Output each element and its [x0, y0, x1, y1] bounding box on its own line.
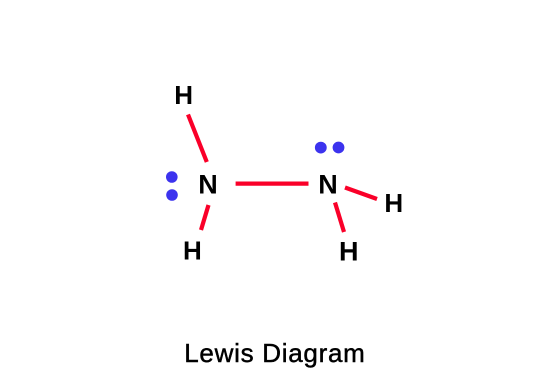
bond H1-N1 [188, 115, 207, 163]
lone pair dot N2 left [315, 142, 327, 154]
svg-text:H: H [174, 80, 193, 110]
bond N2-H2 [345, 188, 377, 200]
svg-text:H: H [384, 188, 403, 218]
bond N1-N2 [236, 182, 309, 186]
svg-text:N: N [198, 169, 218, 199]
svg-text:H: H [183, 236, 202, 266]
lone pair dot N2 right [333, 142, 345, 154]
svg-text:H: H [339, 236, 359, 266]
svg-text:Lewis Diagram: Lewis Diagram [184, 338, 365, 368]
lone pair dot N1 lower [166, 189, 178, 201]
bond N1-H3 [201, 205, 209, 230]
svg-text:N: N [318, 169, 338, 199]
bond N2-H4 [335, 203, 344, 233]
lone pair dot N1 upper [166, 171, 178, 183]
